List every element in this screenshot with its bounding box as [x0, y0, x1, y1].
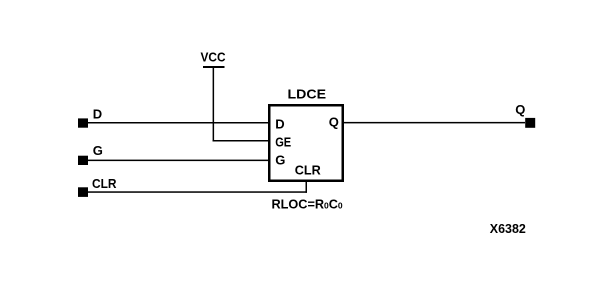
svg-text:Q: Q [329, 115, 339, 130]
power symbol VCC [201, 50, 227, 69]
input terminal D [78, 118, 88, 127]
svg-text:D: D [93, 106, 102, 121]
input terminal G [78, 156, 88, 165]
svg-text:G: G [275, 153, 285, 168]
svg-text:G: G [93, 143, 103, 158]
wire D [88, 122, 270, 124]
svg-text:D: D [275, 117, 284, 132]
wire VCC vertical [213, 68, 215, 142]
svg-text:CLR: CLR [92, 176, 117, 191]
input terminal CLR [78, 187, 88, 197]
svg-text:CLR: CLR [295, 163, 322, 178]
wire CLR horizontal [88, 191, 307, 193]
wire GE (VCC to GE pin) [213, 140, 270, 142]
output terminal Q [525, 118, 535, 128]
svg-text:VCC: VCC [201, 50, 227, 65]
svg-text:X6382: X6382 [490, 221, 526, 236]
wire CLR vertical [306, 180, 308, 193]
svg-text:GE: GE [275, 134, 291, 149]
wire Q [344, 122, 525, 124]
wire G [88, 160, 270, 162]
svg-text:LDCE: LDCE [288, 87, 327, 102]
svg-text:Q: Q [515, 102, 525, 117]
latch U1 LDCE body [269, 105, 343, 181]
svg-text:RLOC=R0C0: RLOC=R0C0 [272, 197, 343, 211]
